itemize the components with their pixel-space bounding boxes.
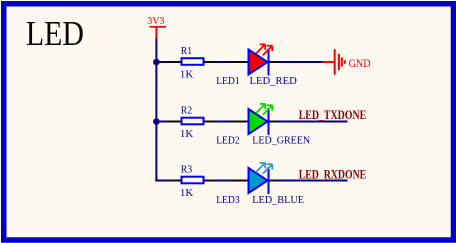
- wire row2 bus to R2: [156, 121, 166, 123]
- diode LED2 green: [229, 104, 279, 135]
- wire vertical bus: [155, 38, 157, 181]
- wire row3 LED3 to net label: [278, 180, 348, 182]
- svg-text:LED_RED: LED_RED: [250, 76, 298, 87]
- diode LED1 red: [229, 44, 279, 75]
- svg-text:3V3: 3V3: [147, 15, 164, 27]
- svg-text:LED_TXDONE: LED_TXDONE: [299, 108, 367, 122]
- svg-text:1K: 1K: [180, 129, 194, 140]
- resistor R2: [167, 118, 216, 125]
- svg-text:LED_RXDONE: LED_RXDONE: [299, 167, 367, 181]
- wire row1 R1 to LED1: [216, 61, 229, 63]
- wire row1 LED1 to GND: [278, 61, 322, 63]
- svg-text:R1: R1: [181, 46, 192, 57]
- junction at R2 tap: [153, 118, 160, 125]
- power port 3V3: [147, 15, 166, 38]
- resistor R1: [167, 58, 216, 65]
- ground GND: [322, 49, 371, 75]
- diode LED3 blue: [229, 163, 279, 194]
- wire row2 R2 to LED2: [216, 121, 229, 123]
- resistor R3: [167, 177, 216, 184]
- svg-text:LED2: LED2: [216, 136, 240, 147]
- junction at R1 tap: [153, 59, 160, 66]
- wire row3 bus elbow to R3: [155, 180, 166, 182]
- svg-text:GND: GND: [349, 56, 371, 70]
- svg-text:LED: LED: [26, 14, 84, 53]
- svg-text:1K: 1K: [180, 69, 194, 80]
- wire row3 R3 to LED3: [216, 180, 229, 182]
- svg-text:R2: R2: [181, 106, 192, 117]
- svg-text:1K: 1K: [180, 188, 194, 199]
- svg-text:LED_GREEN: LED_GREEN: [252, 136, 310, 147]
- wire row2 LED2 to net label: [278, 121, 348, 123]
- wire row1 bus to R1: [156, 61, 166, 63]
- svg-text:LED_BLUE: LED_BLUE: [252, 195, 304, 206]
- svg-text:R3: R3: [181, 165, 192, 176]
- svg-text:LED3: LED3: [216, 195, 240, 206]
- svg-text:LED1: LED1: [216, 76, 240, 87]
